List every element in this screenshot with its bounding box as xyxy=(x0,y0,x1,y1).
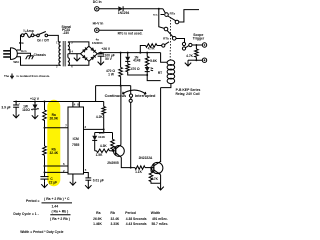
svg-text:4.7K: 4.7K xyxy=(186,54,194,58)
wire switch to base line xyxy=(130,102,132,167)
svg-text:Chassis: Chassis xyxy=(34,53,46,57)
svg-text:3.33K: 3.33K xyxy=(111,222,120,226)
svg-text:26.9K: 26.9K xyxy=(93,217,102,221)
relay coil RT P-B KEP xyxy=(161,53,201,97)
svg-text:4.3K: 4.3K xyxy=(100,144,108,148)
svg-text:Hi-V In: Hi-V In xyxy=(93,21,104,25)
formula period xyxy=(26,197,72,209)
wire Q2 collector xyxy=(160,160,162,163)
svg-text:32.4K: 32.4K xyxy=(49,151,58,155)
wire Ra-Rb junction to pin 7 xyxy=(44,120,69,146)
svg-text:Rb: Rb xyxy=(110,211,115,215)
wire N1 rail xyxy=(96,85,131,87)
wire center tap xyxy=(71,53,81,55)
relay contact RTb2 xyxy=(162,42,192,50)
svg-text:RT: RT xyxy=(158,71,162,75)
wire tap junction xyxy=(139,52,141,54)
svg-text:22 µF: 22 µF xyxy=(49,181,57,185)
ground under zener xyxy=(32,109,38,119)
svg-text:4148: 4148 xyxy=(133,59,140,63)
capacitor 3.9 uF xyxy=(1,102,20,110)
svg-text:4148: 4148 xyxy=(98,135,105,139)
transistor Q1 2N2905 xyxy=(107,145,124,165)
svg-text:4.38 Seconds: 4.38 Seconds xyxy=(126,217,147,221)
formula width xyxy=(20,230,63,234)
wire Q1 emitter to N1 xyxy=(120,86,122,145)
resistor 4.3K xyxy=(100,133,114,152)
svg-text:ICM: ICM xyxy=(73,137,79,141)
svg-text:+12 V: +12 V xyxy=(30,97,40,101)
resistor 4.7K (scope feed) xyxy=(146,44,162,51)
diode 1N4148 (driver) xyxy=(92,131,105,141)
svg-text:0.01 µF: 0.01 µF xyxy=(93,178,104,182)
ground Q2 xyxy=(157,183,163,190)
ground scope xyxy=(185,60,197,66)
svg-text:1.44: 1.44 xyxy=(51,205,58,209)
svg-text:( Ra + 2 Rb ): ( Ra + 2 Rb ) xyxy=(50,217,70,221)
svg-text:110Ω: 110Ω xyxy=(22,108,30,112)
svg-text:Period =: Period = xyxy=(26,199,39,203)
resistor 1.1K xyxy=(135,166,151,174)
wire Q2 emitter to gnd xyxy=(160,175,162,183)
relay contact RTa xyxy=(153,11,179,23)
wire secondary bottom to bridge xyxy=(71,61,89,65)
capacitor C 22 uF xyxy=(40,177,57,185)
zener diode 12V xyxy=(22,102,39,113)
note isolated ground xyxy=(4,74,50,79)
svg-text:-230: -230 xyxy=(63,31,70,35)
linkage dashed xyxy=(169,17,171,61)
highlight bar over Ra, Rb, C xyxy=(47,100,60,187)
ground under C1 xyxy=(98,56,104,65)
svg-text:2N2222A: 2N2222A xyxy=(139,156,153,160)
pin 5 cap 0.01 uF xyxy=(84,173,104,189)
svg-text:Wht: Wht xyxy=(13,60,19,64)
svg-text:¼ Amp: ¼ Amp xyxy=(23,29,34,33)
terminal scope trigger hot xyxy=(193,33,207,47)
terminal Hi-V In xyxy=(93,21,104,32)
wire pin 3 out xyxy=(84,128,105,130)
fuse F1 1/4 Amp xyxy=(21,29,34,37)
svg-text:1N1294: 1N1294 xyxy=(118,11,130,15)
svg-text:On / Off: On / Off xyxy=(37,38,50,42)
ground under C xyxy=(41,179,47,188)
svg-text:1N4001: 1N4001 xyxy=(92,41,103,45)
svg-text:4.2K: 4.2K xyxy=(96,115,104,119)
svg-text:RTb: RTb xyxy=(163,37,169,41)
wire to scope trigger xyxy=(192,44,202,46)
resistor 4.2K pullup xyxy=(96,102,106,133)
svg-text:2N2905: 2N2905 xyxy=(107,161,119,165)
terminal scope trigger gnd xyxy=(202,58,206,62)
svg-text:26.9K: 26.9K xyxy=(49,116,58,120)
label Wht xyxy=(13,60,19,64)
resistor 1.5K xyxy=(95,140,113,156)
resistor 470 Ohm (branch B) xyxy=(126,61,148,76)
svg-text:32.4K: 32.4K xyxy=(111,217,120,221)
svg-text:Interrupted: Interrupted xyxy=(135,93,156,98)
svg-text:is isolated from chassis.: is isolated from chassis. xyxy=(17,74,51,78)
svg-text:1 W: 1 W xyxy=(108,73,115,77)
wire +26V rail xyxy=(97,52,160,54)
svg-text:Width: Width xyxy=(151,211,160,215)
diode 1N4148 (branch B) xyxy=(125,53,140,63)
wire +12V rail xyxy=(13,97,95,103)
svg-text:The: The xyxy=(4,74,10,78)
wire green to chassis xyxy=(17,53,30,56)
svg-text:DC In: DC In xyxy=(93,0,102,4)
pins 4,8 stubs xyxy=(73,102,79,108)
svg-text:RTa: RTa xyxy=(170,11,176,15)
switch S1 On/Off xyxy=(34,32,58,43)
svg-text:n.o.: n.o. xyxy=(153,13,158,17)
svg-text:RTc is not used.: RTc is not used. xyxy=(118,32,143,36)
svg-text:1.46K: 1.46K xyxy=(93,222,102,226)
svg-text:5.6K: 5.6K xyxy=(150,59,158,63)
wire RTa to DC Out xyxy=(179,10,199,22)
wire DC In xyxy=(99,8,118,10)
wire to RTa xyxy=(123,8,165,13)
bridge rectifier D1-D4 4x 1N4001 xyxy=(81,38,103,62)
diode 1N1294 xyxy=(118,6,130,15)
wire to RTb common xyxy=(159,9,165,29)
label Grn xyxy=(21,49,27,53)
diode (relay branch) xyxy=(145,66,162,75)
resistor Rb 32.4K xyxy=(43,146,59,155)
transformer T1 Signal PC28-230 xyxy=(56,25,74,69)
wire secondary top to bridge xyxy=(71,42,89,46)
label Blk xyxy=(19,41,24,45)
resistor 470 Ohm 1 W xyxy=(106,53,122,86)
svg-text:4.7K: 4.7K xyxy=(151,177,159,181)
svg-text:4.7K: 4.7K xyxy=(148,47,156,51)
relay contact RTb xyxy=(163,27,184,42)
node +26 V xyxy=(101,47,111,51)
svg-text:470 Ω: 470 Ω xyxy=(131,67,140,71)
resistor Ra 26.9K xyxy=(43,102,59,121)
switch continuous/interrupted xyxy=(105,86,156,103)
wire to relay bottom bus xyxy=(147,71,160,80)
op-amp timer U1 ICM 7555 xyxy=(63,103,87,174)
wire Hi-V In (RTc unused) xyxy=(99,30,143,35)
svg-text:+: + xyxy=(101,51,103,55)
svg-text:Continuous: Continuous xyxy=(105,93,127,98)
pin 1 ground xyxy=(70,174,76,185)
wire N1 down to +12V rail xyxy=(96,86,104,102)
wire relay to Q2 collector xyxy=(160,88,162,162)
svg-text:7555: 7555 xyxy=(72,143,80,147)
svg-text:1.1K: 1.1K xyxy=(135,170,143,174)
svg-text:Grn: Grn xyxy=(21,49,27,53)
svg-text:3.9 µF: 3.9 µF xyxy=(1,105,10,109)
AC plug P1 xyxy=(3,48,17,60)
resistor 5.6K xyxy=(145,53,157,66)
svg-text:58.7 mSec.: 58.7 mSec. xyxy=(151,222,168,226)
svg-text:Width = Period * Duty Cycle: Width = Period * Duty Cycle xyxy=(20,230,63,234)
chassis ground xyxy=(26,53,46,59)
resistor 4.7K (emitter/base) xyxy=(149,167,160,184)
formula duty cycle xyxy=(13,210,70,221)
svg-text:Duty Cycle = 1 -: Duty Cycle = 1 - xyxy=(13,212,38,216)
terminal DC In xyxy=(93,0,102,11)
svg-text:Blk: Blk xyxy=(19,41,24,45)
svg-text:50 V: 50 V xyxy=(105,57,113,61)
resistor 4.7K (scope) xyxy=(186,45,202,61)
node wire xyxy=(95,132,113,134)
svg-text:491 mSec.: 491 mSec. xyxy=(152,217,168,221)
wire Rb to pins 2,6 xyxy=(44,155,69,176)
wire black hot xyxy=(17,35,21,50)
svg-text:Trigger: Trigger xyxy=(193,37,205,41)
svg-text:Relay, 24V Coil: Relay, 24V Coil xyxy=(175,92,199,96)
ground isolated (center tap) xyxy=(74,54,80,61)
svg-text:1.5K: 1.5K xyxy=(96,153,104,157)
svg-text:Ra: Ra xyxy=(96,211,100,215)
svg-text:( Ra + Rb ): ( Ra + Rb ) xyxy=(51,210,68,214)
wire Q1 collector down xyxy=(121,157,135,168)
wire tap to 4.7K feed xyxy=(140,46,145,53)
table of values xyxy=(93,211,168,226)
ground under 3.9uF xyxy=(13,107,19,118)
svg-text:4.43 Seconds: 4.43 Seconds xyxy=(126,222,147,226)
svg-text:( Ra + 2 Rb ) * C: ( Ra + 2 Rb ) * C xyxy=(44,197,70,201)
transistor Q2 2N2222A xyxy=(139,156,163,175)
svg-text:Period: Period xyxy=(125,211,136,215)
wire white neutral xyxy=(17,57,58,66)
capacitor C1 1100 uF 50 V xyxy=(98,51,115,61)
